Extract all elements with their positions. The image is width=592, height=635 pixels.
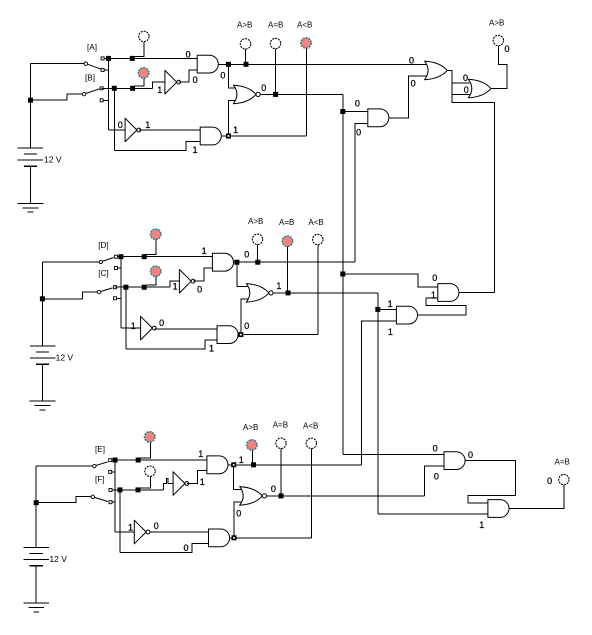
- wire L1 row: [243, 334, 317, 336]
- and-gate U9 (E2*E1*G0): [438, 284, 459, 302]
- wire NOT1 out to AND1: [179, 70, 198, 82]
- svg-text:1: 1: [198, 449, 203, 459]
- svg-text:1: 1: [202, 246, 207, 256]
- wire C to AND5 bottom: [126, 340, 217, 349]
- wire signal E down: [114, 460, 116, 532]
- wire ANDU out: [459, 292, 494, 294]
- node D2: [142, 254, 147, 259]
- wire L0 to NOR3 bottom: [234, 502, 242, 535]
- and-gate U19 (L0=E'*F): [209, 529, 230, 547]
- svg-text:A<B: A<B: [308, 218, 323, 227]
- svg-text:0: 0: [355, 99, 360, 109]
- junction L1: [238, 332, 243, 337]
- and-gate U10 (E1*G0): [396, 306, 417, 324]
- probe lamp X2 (B) lit: [138, 68, 148, 78]
- svg-text:[F]: [F]: [95, 475, 105, 484]
- wire AND-U out up: [452, 94, 494, 292]
- node B2: [130, 86, 135, 91]
- node battery3 branch: [34, 500, 39, 505]
- svg-text:0: 0: [186, 50, 191, 60]
- svg-text:1: 1: [388, 327, 393, 337]
- wire NOT2 out to AND2: [139, 129, 200, 131]
- junction G0a: [231, 462, 236, 467]
- wire row D: [118, 256, 213, 258]
- svg-text:0: 0: [271, 484, 276, 494]
- wire AND6 out: [230, 537, 232, 539]
- svg-text:[C]: [C]: [98, 269, 108, 278]
- and-gate U21 (E2*E0): [444, 452, 465, 470]
- probe lamp A=B bit2: [270, 38, 280, 48]
- node A1: [106, 56, 111, 61]
- wire battery3 to switch E: [36, 465, 93, 467]
- wire signal A down: [108, 58, 110, 129]
- ground GND1: [18, 202, 44, 204]
- probe lamp A=B bit1 lit: [282, 236, 292, 246]
- node E2n: [136, 458, 141, 463]
- and-gate U14 (L1=D'*C): [217, 326, 238, 344]
- svg-text:A<B: A<B: [303, 422, 318, 431]
- node E1a: [286, 290, 291, 295]
- svg-text:A>B: A>B: [243, 423, 258, 432]
- wire V1+ to switches: [29, 64, 31, 148]
- and-gate U6 (E2*G1): [368, 109, 389, 127]
- or-gate U7 (OR1): [425, 61, 448, 80]
- battery V2 12V: [30, 345, 55, 347]
- svg-text:12 V: 12 V: [49, 554, 67, 564]
- probe lamp A<B bit2 lit: [301, 38, 311, 48]
- wire to switch C common: [45, 292, 98, 299]
- ground GND2: [30, 400, 56, 402]
- node E2c: [340, 272, 345, 277]
- node E2a: [273, 92, 278, 97]
- svg-text:0: 0: [411, 79, 416, 89]
- wire row B: [102, 87, 153, 89]
- node E1n: [113, 458, 118, 463]
- probe lamp X4 (C) lit: [151, 266, 161, 276]
- wire AND1 out: [218, 63, 233, 65]
- wire signal F down: [119, 490, 121, 552]
- svg-text:0: 0: [236, 509, 241, 519]
- wire OR1 out jog: [447, 70, 469, 82]
- svg-text:0: 0: [356, 128, 361, 138]
- svg-text:0: 0: [220, 71, 225, 81]
- probe lamp A>B bit2: [240, 39, 250, 49]
- switch C [C]: [97, 290, 100, 293]
- svg-text:0: 0: [468, 450, 473, 460]
- wire L1 to NOR2 bottom: [241, 299, 250, 332]
- switch A [A]: [84, 62, 87, 65]
- svg-text:0: 0: [433, 444, 438, 454]
- wire ANDV out to ANDU: [418, 298, 466, 315]
- wire G0 row: [250, 464, 362, 466]
- wire E1 to ANDX: [378, 513, 488, 515]
- svg-text:1: 1: [233, 125, 238, 135]
- wire V3+ up: [35, 466, 37, 547]
- wire signal B down: [113, 88, 115, 150]
- wire row A: [104, 57, 197, 59]
- wire ANDX out to lamp: [509, 485, 564, 509]
- wire NOT5 out to AND7: [187, 470, 207, 483]
- wire AND4 out: [234, 261, 253, 263]
- wire to switch F common: [39, 497, 92, 503]
- svg-text:A>B: A>B: [237, 21, 252, 30]
- svg-text:0: 0: [154, 521, 159, 531]
- probe lamp X5 (E) lit: [145, 432, 155, 442]
- node battery1 branch: [28, 98, 33, 103]
- svg-text:0: 0: [547, 476, 552, 486]
- switch D [D]: [99, 260, 102, 263]
- wire NOT4 out to AND5: [154, 328, 217, 330]
- wire AND2 out: [221, 135, 226, 137]
- probe lamp A>B bit0 lit: [247, 440, 257, 450]
- wire signal D down: [120, 257, 122, 328]
- wire L0 row: [237, 537, 312, 539]
- wire G2a to NOR1 top: [228, 67, 236, 89]
- node A2: [130, 56, 135, 61]
- svg-text:0: 0: [434, 472, 439, 482]
- wire V1- to ground: [29, 166, 31, 203]
- node B1: [112, 86, 117, 91]
- probe lamp A=B bit0: [276, 438, 286, 448]
- wire G1a to NOR2 top: [237, 264, 250, 286]
- svg-text:1: 1: [276, 281, 281, 291]
- node E2b: [340, 109, 345, 114]
- wire E0 row: [266, 495, 424, 497]
- node E1b: [375, 307, 380, 312]
- wire battery top to switch A: [30, 63, 84, 65]
- svg-text:[D]: [D]: [98, 241, 108, 250]
- wire row B to NOT1: [153, 82, 165, 88]
- node C2: [142, 285, 147, 290]
- svg-text:1: 1: [388, 299, 393, 309]
- node E0a: [279, 493, 284, 498]
- wire NOT6 out to AND6: [150, 531, 208, 533]
- node battery2 branch: [40, 296, 45, 301]
- wire NOT3 out to AND4: [193, 268, 212, 281]
- ground GND3: [23, 602, 49, 604]
- wire to NOT2 input: [109, 129, 126, 131]
- wire V2- to ground: [42, 364, 44, 401]
- wire to NOT4 input: [121, 327, 141, 329]
- svg-text:[E]: [E]: [95, 445, 105, 454]
- svg-text:0: 0: [197, 284, 202, 294]
- not-gate U16 (F'): [173, 472, 185, 496]
- wire E2c branch to ANDU: [343, 274, 438, 287]
- probe lamp A<B bit1: [313, 234, 323, 244]
- probe lamp A>B final: [493, 35, 503, 45]
- svg-text:1: 1: [479, 520, 484, 530]
- svg-text:A=B: A=B: [279, 218, 294, 227]
- svg-text:A=B: A=B: [268, 21, 283, 30]
- and-gate U17 (G0=E*F'): [207, 456, 228, 474]
- svg-text:0: 0: [244, 321, 249, 331]
- wire E1 row: [273, 292, 378, 294]
- svg-text:0: 0: [409, 55, 414, 65]
- node G1a: [234, 260, 239, 265]
- not-gate U18 (E'): [134, 520, 146, 544]
- wire E1 down: [377, 293, 379, 514]
- nor-gate U5 (E2): [233, 85, 256, 104]
- wire signal C down: [125, 287, 127, 349]
- svg-text:A>B: A>B: [248, 217, 263, 226]
- wire OR2 out to lamp: [490, 46, 507, 89]
- wire G1 up to AND3: [355, 123, 368, 262]
- junction L0: [232, 535, 237, 540]
- battery V3 12V: [24, 546, 49, 548]
- node G2b: [244, 62, 249, 67]
- svg-text:0: 0: [118, 120, 123, 130]
- and-gate U22 (A=B final): [488, 500, 509, 518]
- wire E2 row: [260, 93, 343, 95]
- svg-text:1: 1: [157, 85, 162, 95]
- switch E [E]: [93, 464, 96, 467]
- wire row C: [115, 286, 170, 288]
- wire AND7 out: [228, 464, 250, 466]
- wire row C to NOT3: [170, 281, 179, 287]
- svg-text:0: 0: [159, 318, 164, 328]
- wire B to AND2 bottom: [114, 142, 200, 151]
- svg-text:0: 0: [184, 543, 189, 553]
- not-gate U3 (A'): [125, 118, 137, 142]
- nor-gate U15 (E1): [246, 284, 269, 303]
- wire L2 to NOR1 bottom: [228, 101, 236, 134]
- svg-text:[B]: [B]: [85, 74, 95, 83]
- svg-text:A=B: A=B: [273, 421, 288, 430]
- node G0b: [251, 462, 256, 467]
- wire E2 down: [342, 94, 344, 454]
- svg-text:1: 1: [145, 120, 150, 130]
- wire ANDW out to ANDX: [465, 461, 515, 503]
- wire row E: [112, 459, 207, 461]
- probe lamp X3 (D) lit: [151, 229, 161, 239]
- wire L2 row: [231, 135, 306, 137]
- junction L2: [226, 134, 231, 139]
- svg-text:1: 1: [128, 523, 133, 533]
- svg-text:[A]: [A]: [87, 43, 97, 52]
- svg-text:A=B: A=B: [555, 457, 570, 466]
- wire E0 up to ANDW: [425, 466, 445, 496]
- switch B [B]: [82, 92, 85, 95]
- wire to NOT6 input: [115, 531, 134, 533]
- wire E1b to ANDV: [378, 308, 397, 310]
- wire battery2 to switch D: [43, 261, 100, 263]
- wire G2 long to OR1: [234, 63, 428, 65]
- svg-text:12 V: 12 V: [44, 155, 62, 165]
- or-gate U8 (OR2 A>B final): [468, 79, 491, 98]
- and-gate U4 (L2=A'*B): [200, 127, 221, 145]
- svg-text:0: 0: [505, 44, 510, 54]
- node C1: [123, 285, 128, 290]
- svg-text:1: 1: [131, 321, 136, 331]
- svg-text:1: 1: [193, 145, 198, 155]
- probe lamp A=B final: [559, 474, 569, 484]
- probe lamp X1 (A): [139, 31, 149, 41]
- wire V3- to ground: [35, 566, 37, 604]
- svg-text:0: 0: [244, 250, 249, 260]
- wire G0a to NOR3 top: [234, 467, 243, 490]
- svg-text:0: 0: [432, 273, 437, 283]
- svg-text:12 V: 12 V: [56, 353, 74, 363]
- probe lamp A>B bit1: [252, 234, 262, 244]
- wire row F to NOT5: [163, 479, 173, 490]
- svg-text:1: 1: [239, 455, 244, 465]
- probe lamp X6 (F): [145, 466, 155, 476]
- and-gate U12 (G1=D*C'): [212, 253, 233, 271]
- not-gate U13 (D'): [141, 316, 153, 340]
- svg-text:0: 0: [463, 73, 468, 83]
- switch F [F]: [91, 495, 94, 498]
- svg-text:0: 0: [464, 85, 469, 95]
- node F2: [136, 487, 141, 492]
- wire E2 to ANDW top: [343, 453, 444, 455]
- wire V2+ up: [42, 262, 44, 346]
- nor-gate U20 (E0): [240, 487, 263, 506]
- and-gate U2 (G2=A*B'): [197, 55, 218, 73]
- node D1: [118, 254, 123, 259]
- wire F to AND6 bottom: [120, 544, 209, 553]
- probe lamp A<B bit0: [306, 438, 316, 448]
- svg-text:A<B: A<B: [297, 21, 312, 30]
- wire AND3 out to OR1: [389, 76, 428, 118]
- wire E2b to AND3: [343, 111, 368, 113]
- not-gate U1 (B'): [165, 70, 177, 94]
- wire to switch B common: [33, 94, 83, 100]
- svg-text:0: 0: [193, 75, 198, 85]
- wire G1 row: [252, 261, 355, 263]
- node F1: [118, 487, 123, 492]
- svg-text:0: 0: [261, 83, 266, 93]
- not-gate U11 (C'): [179, 269, 191, 293]
- wire G0 up to ANDV: [362, 321, 397, 465]
- svg-text:A>B: A>B: [489, 19, 504, 28]
- node G1b: [255, 260, 260, 265]
- svg-text:1: 1: [200, 477, 205, 487]
- wire row F: [112, 489, 163, 491]
- battery V1 12V: [18, 147, 43, 149]
- svg-text:1: 1: [173, 282, 178, 292]
- svg-text:1: 1: [209, 344, 214, 354]
- node G2a: [226, 62, 231, 67]
- wire AND5 out: [238, 334, 239, 336]
